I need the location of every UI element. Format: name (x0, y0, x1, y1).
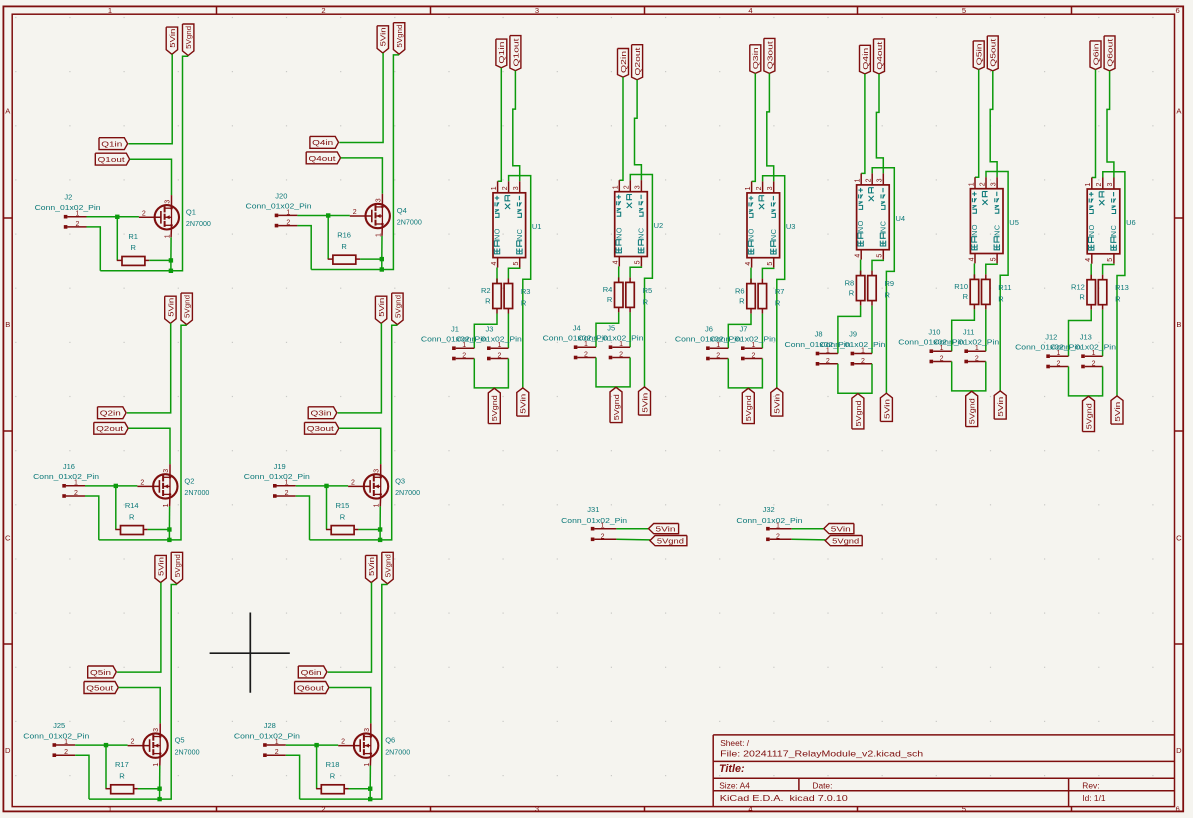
svg-text:5Vin: 5Vin (377, 298, 386, 317)
value labels Q6 (385, 736, 410, 757)
hierarchical label 5Vgnd (171, 552, 182, 584)
svg-text:O: O (856, 220, 865, 226)
pin numbers J25 (64, 739, 68, 756)
svg-text:R13: R13 (1115, 283, 1129, 292)
svg-text:R10: R10 (954, 282, 968, 291)
svg-text:4: 4 (613, 260, 620, 264)
svg-text:U3: U3 (786, 222, 796, 231)
svg-text:2: 2 (353, 209, 357, 216)
value labels Q5 (175, 736, 200, 757)
svg-text:Conn_01x02_Pin: Conn_01x02_Pin (710, 335, 776, 344)
junction (169, 258, 173, 262)
svg-text:R: R (340, 512, 346, 521)
connector J16 (33, 462, 99, 498)
svg-text:6: 6 (1175, 805, 1179, 814)
pin names U6 (1087, 192, 1118, 250)
svg-text:Title:: Title: (719, 763, 745, 775)
connector J19 (244, 462, 310, 498)
svg-text:4: 4 (745, 262, 752, 266)
svg-text:R: R (739, 296, 745, 305)
svg-text:C: C (1109, 225, 1118, 230)
wire R to source junction (138, 788, 160, 790)
svg-text:3: 3 (163, 469, 170, 473)
svg-text:2: 2 (826, 358, 830, 365)
svg-text:2: 2 (131, 739, 135, 746)
svg-text:2: 2 (285, 490, 289, 497)
svg-text:5Vgnd: 5Vgnd (184, 26, 193, 49)
svg-text:Conn_01x02_Pin: Conn_01x02_Pin (246, 202, 312, 211)
wire J6 pin2 to 5Vgnd (728, 359, 762, 388)
svg-text:N: N (515, 235, 524, 240)
wire Q4out to drain (341, 158, 383, 194)
svg-text:R2: R2 (481, 286, 491, 295)
svg-text:Id: 1/1: Id: 1/1 (1082, 793, 1106, 803)
hierarchical label Q3in (308, 407, 337, 419)
wire pin2 to 5Vin net (986, 172, 1008, 391)
svg-text:Q4out: Q4out (875, 42, 884, 70)
pin numbers J4 (584, 341, 588, 358)
wire R to source junction (358, 529, 380, 531)
pin numbers J6 (716, 342, 720, 359)
junction (157, 787, 161, 791)
wire pin2 to 5Vin net (763, 176, 785, 388)
svg-text:R: R (885, 291, 891, 300)
svg-text:2N7000: 2N7000 (397, 218, 422, 227)
svg-text:1: 1 (153, 763, 160, 767)
svg-text:Conn_01x02_Pin: Conn_01x02_Pin (234, 731, 300, 740)
connector J8 (785, 330, 851, 366)
hierarchical label 5Vin (994, 391, 1006, 419)
wire source pin chain (168, 506, 170, 529)
svg-text:Rev:: Rev: (1082, 780, 1099, 790)
hierarchical label 5Vgnd (393, 23, 404, 55)
pin numbers J7 (751, 342, 755, 359)
svg-text:R1: R1 (128, 232, 138, 241)
svg-text:U5: U5 (1009, 218, 1019, 227)
svg-text:4: 4 (491, 262, 498, 266)
wire Q2out to drain (128, 428, 170, 464)
svg-text:1: 1 (776, 523, 780, 530)
svg-text:U2: U2 (654, 221, 664, 230)
svg-text:R: R (341, 242, 347, 251)
hierarchical label 5Vin (639, 387, 651, 415)
wire 5Vin to Q3in (338, 323, 382, 413)
svg-text:U6: U6 (1126, 218, 1136, 227)
svg-text:J20: J20 (275, 191, 287, 200)
junction (104, 743, 108, 747)
svg-text:1: 1 (1085, 183, 1092, 187)
svg-text:5Vin: 5Vin (882, 399, 891, 419)
hierarchical label 5Vgnd (183, 24, 194, 56)
wire J pin1 to gate (286, 744, 338, 746)
hierarchical label 5Vin (824, 524, 854, 534)
resistor R3 (504, 268, 530, 314)
svg-text:C: C (515, 229, 524, 234)
svg-text:2: 2 (861, 358, 865, 365)
wire 5Vgnd rail (99, 325, 187, 540)
wire J pin2 down (296, 496, 310, 540)
svg-text:Q5out: Q5out (86, 683, 114, 692)
hierarchical label Q4out (874, 39, 885, 74)
svg-text:1: 1 (751, 342, 755, 349)
wire R7 to J7 pin1 (761, 314, 763, 349)
svg-text:R: R (485, 296, 491, 305)
svg-text:J25: J25 (53, 721, 65, 730)
pin numbers Q2 (140, 469, 170, 508)
wire Q1in to pin1 (498, 68, 502, 182)
pin numbers J3 (497, 342, 501, 359)
hierarchical label 5Vgnd (742, 388, 754, 423)
wire source pin chain (170, 237, 172, 260)
svg-text:Q5in: Q5in (975, 43, 984, 65)
hierarchical label Q3out (305, 422, 339, 434)
svg-text:O: O (493, 228, 502, 234)
wire R9 to J9 pin1 (871, 306, 873, 354)
hierarchical label Q2out (632, 45, 643, 80)
svg-text:1: 1 (745, 186, 752, 190)
wire Q4in to pin1 (861, 74, 865, 173)
wire 5Vin to Q1in (128, 54, 172, 144)
wire Q5out to pin3 (990, 71, 997, 177)
hierarchical label Q5in (88, 666, 117, 678)
wire Q6in to pin1 (1092, 70, 1096, 178)
svg-text:J12: J12 (1045, 332, 1057, 341)
hierarchical label Q6in (1090, 41, 1101, 70)
svg-text:J3: J3 (486, 324, 494, 333)
wire Q6out to drain (329, 688, 371, 724)
svg-text:N: N (747, 235, 756, 240)
connector J32 (736, 505, 802, 541)
svg-text:Q2: Q2 (184, 476, 194, 485)
svg-text:Conn_01x02_Pin: Conn_01x02_Pin (578, 334, 644, 343)
wire R to source junction (360, 258, 382, 260)
svg-text:Q3out: Q3out (765, 41, 774, 69)
pin numbers Q3 (351, 469, 381, 508)
svg-text:R5: R5 (643, 286, 653, 295)
svg-text:5Vgnd: 5Vgnd (183, 295, 192, 318)
svg-text:J32: J32 (763, 505, 775, 514)
pin numbers J8 (826, 348, 830, 365)
svg-text:Q2out: Q2out (633, 48, 642, 76)
svg-text:N: N (992, 231, 1001, 236)
hierarchical label 5Vin (366, 555, 377, 582)
svg-text:2: 2 (584, 352, 588, 359)
svg-text:5Vin: 5Vin (157, 557, 166, 576)
svg-text:C: C (992, 225, 1001, 230)
svg-text:2: 2 (142, 210, 146, 217)
junction (378, 538, 382, 542)
svg-text:N: N (769, 235, 778, 240)
svg-text:R9: R9 (885, 279, 895, 288)
svg-text:1: 1 (108, 805, 112, 814)
wire source pin chain (369, 766, 371, 789)
svg-text:Q2out: Q2out (96, 424, 124, 433)
wire pin1 to 5Vin (792, 528, 824, 530)
svg-text:5Vin: 5Vin (168, 29, 177, 48)
svg-text:Q4out: Q4out (309, 154, 337, 163)
hierarchical label Q4out (306, 152, 340, 164)
svg-text:5Vin: 5Vin (379, 27, 388, 46)
resistor R18 (316, 760, 348, 794)
svg-text:5Vgnd: 5Vgnd (657, 536, 684, 545)
wire J4 pin2 to 5Vgnd (596, 358, 630, 387)
pin numbers J28 (275, 739, 279, 756)
svg-text:3: 3 (535, 805, 539, 814)
hierarchical label Q4in (310, 136, 339, 148)
svg-text:R: R (607, 295, 613, 304)
hierarchical label 5Vin (1111, 396, 1123, 424)
svg-text:R: R (1079, 293, 1085, 302)
svg-text:3: 3 (513, 186, 520, 190)
svg-text:J4: J4 (573, 323, 581, 332)
transistor Q2 2N7000 (137, 464, 177, 506)
svg-text:5: 5 (990, 257, 997, 261)
svg-text:J19: J19 (274, 462, 286, 471)
pin names U2 (614, 195, 645, 253)
svg-text:Conn_01x02_Pin: Conn_01x02_Pin (244, 472, 310, 481)
svg-text:KiCad E.D.A. kicad 7.0.10: KiCad E.D.A. kicad 7.0.10 (720, 793, 848, 803)
wire pin2 to 5Vin net (509, 176, 531, 388)
svg-text:N: N (970, 231, 979, 236)
svg-text:5: 5 (962, 6, 966, 15)
svg-text:Conn_01x02_Pin: Conn_01x02_Pin (35, 203, 101, 212)
hierarchical label 5Vgnd (852, 394, 864, 429)
svg-text:R: R (643, 297, 649, 306)
pin numbers Q1 (142, 200, 172, 239)
hierarchical label Q5out (84, 682, 118, 694)
wire J pin1 to gate (296, 485, 348, 487)
hierarchical label 5Vin (155, 555, 166, 582)
wire Q1out to pin3 (513, 71, 520, 182)
hierarchical label Q1in (99, 138, 128, 150)
svg-text:J1: J1 (451, 324, 459, 333)
svg-text:Q6: Q6 (385, 736, 395, 745)
hierarchical label 5Vgnd (610, 387, 622, 422)
hierarchical label Q5out (987, 36, 998, 71)
wire source pin chain (381, 236, 383, 259)
wire pin2 to 5Vin net (1103, 172, 1125, 396)
svg-text:2: 2 (1096, 183, 1103, 187)
svg-text:R: R (775, 299, 781, 308)
wire source junction down (381, 259, 383, 269)
hierarchical label 5Vgnd (488, 388, 500, 423)
resistor R17 (106, 760, 138, 794)
svg-text:U1: U1 (532, 222, 542, 231)
pin numbers J19 (285, 480, 289, 497)
cursor crosshair (210, 613, 290, 693)
hierarchical label Q6out (295, 682, 329, 694)
svg-text:Q5out: Q5out (989, 39, 998, 67)
resistor R7 (758, 268, 784, 314)
svg-text:5Vin: 5Vin (831, 524, 851, 533)
svg-text:2: 2 (502, 186, 509, 190)
relay U1 (493, 181, 526, 267)
svg-text:J16: J16 (63, 462, 75, 471)
wire Q2out to pin3 (635, 80, 642, 181)
junction (368, 787, 372, 791)
pin numbers U2 (613, 185, 642, 264)
svg-text:Q4: Q4 (397, 206, 407, 215)
svg-text:5Vgnd: 5Vgnd (393, 295, 402, 318)
pin numbers U6 (1085, 183, 1114, 262)
pin numbers Q5 (131, 728, 161, 767)
svg-text:3: 3 (153, 728, 160, 732)
transistor Q3 2N7000 (348, 464, 388, 506)
svg-text:2: 2 (979, 182, 986, 186)
resistor R9 (868, 260, 894, 306)
hierarchical label 5Vgnd (825, 536, 862, 546)
svg-text:R: R (130, 243, 136, 252)
junction (169, 269, 173, 273)
relay U6 (1087, 178, 1120, 264)
hierarchical label Q1out (95, 153, 129, 165)
wire 5Vgnd rail (300, 585, 388, 800)
wire J pin2 down (297, 226, 311, 270)
wire source pin chain (159, 766, 161, 789)
wire Q1out to drain (130, 159, 172, 195)
svg-text:1: 1 (861, 348, 865, 355)
svg-text:J13: J13 (1080, 332, 1092, 341)
svg-text:2: 2 (351, 480, 355, 487)
svg-text:1: 1 (1092, 350, 1096, 357)
svg-text:Q1in: Q1in (497, 42, 506, 64)
wire 5Vgnd rail (311, 55, 399, 270)
svg-text:Q1: Q1 (186, 207, 196, 216)
value labels Q4 (397, 206, 422, 227)
svg-text:5Vgnd: 5Vgnd (395, 25, 404, 48)
svg-text:R16: R16 (337, 231, 351, 240)
svg-text:2: 2 (75, 221, 79, 228)
wire J pin2 down (85, 496, 99, 540)
pin numbers U3 (745, 186, 774, 265)
wire R to source junction (349, 788, 371, 790)
wire gate junction down to R (116, 217, 118, 261)
svg-text:5Vgnd: 5Vgnd (490, 395, 499, 421)
svg-text:N: N (879, 227, 888, 232)
svg-text:Q6in: Q6in (1091, 43, 1100, 65)
svg-text:J28: J28 (264, 721, 276, 730)
svg-text:R3: R3 (521, 287, 531, 296)
svg-text:6: 6 (1175, 6, 1179, 15)
resistor R4 (603, 266, 623, 312)
wire 5Vgnd rail (89, 585, 177, 800)
svg-text:R: R (119, 772, 125, 781)
junction (157, 797, 161, 801)
wire Q5in to pin1 (975, 70, 979, 178)
wire R5 to J5 pin1 (629, 312, 631, 347)
connector J31 (561, 505, 627, 541)
svg-text:5Vin: 5Vin (367, 557, 376, 576)
svg-text:Q3in: Q3in (311, 409, 332, 418)
wire Q3in to pin1 (752, 73, 756, 181)
svg-text:Conn_01x02_Pin: Conn_01x02_Pin (23, 731, 89, 740)
connector J10 (898, 327, 964, 363)
svg-text:R11: R11 (998, 283, 1011, 292)
pin names U3 (747, 196, 778, 254)
svg-text:5: 5 (962, 805, 966, 814)
svg-text:1: 1 (285, 480, 289, 487)
hierarchical label Q1out (510, 36, 521, 71)
svg-text:2N7000: 2N7000 (385, 747, 410, 756)
wire Q5out to drain (119, 688, 161, 724)
svg-text:O: O (747, 228, 756, 234)
svg-text:5Vin: 5Vin (656, 524, 676, 533)
svg-text:2: 2 (601, 533, 605, 540)
svg-text:2: 2 (751, 353, 755, 360)
svg-text:2N7000: 2N7000 (186, 219, 211, 228)
wire Q3out to pin3 (767, 73, 774, 181)
pin numbers U1 (491, 186, 520, 265)
wire gate junction down to R (327, 216, 329, 260)
junction (314, 743, 318, 747)
relay U5 (970, 177, 1003, 263)
svg-text:R: R (1115, 295, 1121, 304)
svg-text:3: 3 (1107, 183, 1114, 187)
svg-text:R7: R7 (775, 287, 785, 296)
svg-text:5: 5 (1107, 258, 1114, 262)
svg-text:5Vin: 5Vin (1113, 402, 1122, 422)
svg-text:5Vin: 5Vin (519, 394, 528, 414)
svg-text:5Vgnd: 5Vgnd (832, 536, 859, 545)
wire R10 to J10 pin1 (952, 309, 975, 351)
svg-text:1: 1 (108, 6, 112, 15)
svg-text:2: 2 (1092, 361, 1096, 368)
svg-text:C: C (5, 534, 11, 543)
svg-text:2: 2 (341, 739, 345, 746)
hierarchical label 5Vin (165, 296, 176, 323)
svg-text:C: C (637, 228, 646, 233)
resistor R13 (1098, 264, 1129, 310)
junction (167, 527, 171, 531)
svg-text:O: O (970, 224, 979, 230)
svg-text:Conn_01x02_Pin: Conn_01x02_Pin (819, 340, 885, 349)
wire R11 to J11 pin1 (985, 309, 987, 351)
pin names U5 (970, 192, 1001, 250)
resistor R2 (481, 268, 501, 314)
svg-text:J6: J6 (705, 324, 713, 333)
svg-text:B: B (5, 320, 10, 329)
svg-text:1: 1 (64, 739, 68, 746)
hierarchical label 5Vin (649, 524, 679, 534)
pin numbers J20 (286, 209, 290, 226)
transistor Q6 2N7000 (338, 723, 378, 765)
pin numbers J32 (776, 523, 780, 541)
svg-text:J5: J5 (607, 323, 615, 332)
svg-text:4: 4 (1085, 258, 1092, 262)
svg-text:3: 3 (635, 185, 642, 189)
transistor Q1 2N7000 (139, 195, 179, 237)
wire Q6out to pin3 (1107, 71, 1114, 178)
svg-text:3: 3 (535, 6, 539, 15)
wire R8 to J8 pin1 (838, 306, 861, 354)
svg-text:1: 1 (163, 503, 170, 507)
svg-text:Q6out: Q6out (297, 683, 325, 692)
svg-text:J7: J7 (740, 324, 748, 333)
svg-text:C: C (1176, 534, 1182, 543)
wire J pin1 to gate (297, 215, 349, 217)
hierarchical label Q3out (764, 38, 775, 73)
svg-text:2: 2 (619, 352, 623, 359)
wire R4 to J4 pin1 (596, 312, 619, 347)
pin numbers J31 (601, 523, 605, 541)
svg-text:J8: J8 (815, 330, 823, 339)
wire gate junction down to R (105, 745, 107, 789)
connector J2 (35, 193, 101, 229)
svg-text:Conn_01x02_Pin: Conn_01x02_Pin (561, 516, 627, 525)
svg-text:Q1out: Q1out (98, 155, 126, 164)
wire J12 pin2 to 5Vgnd (1069, 367, 1103, 396)
svg-text:N: N (1087, 231, 1096, 236)
